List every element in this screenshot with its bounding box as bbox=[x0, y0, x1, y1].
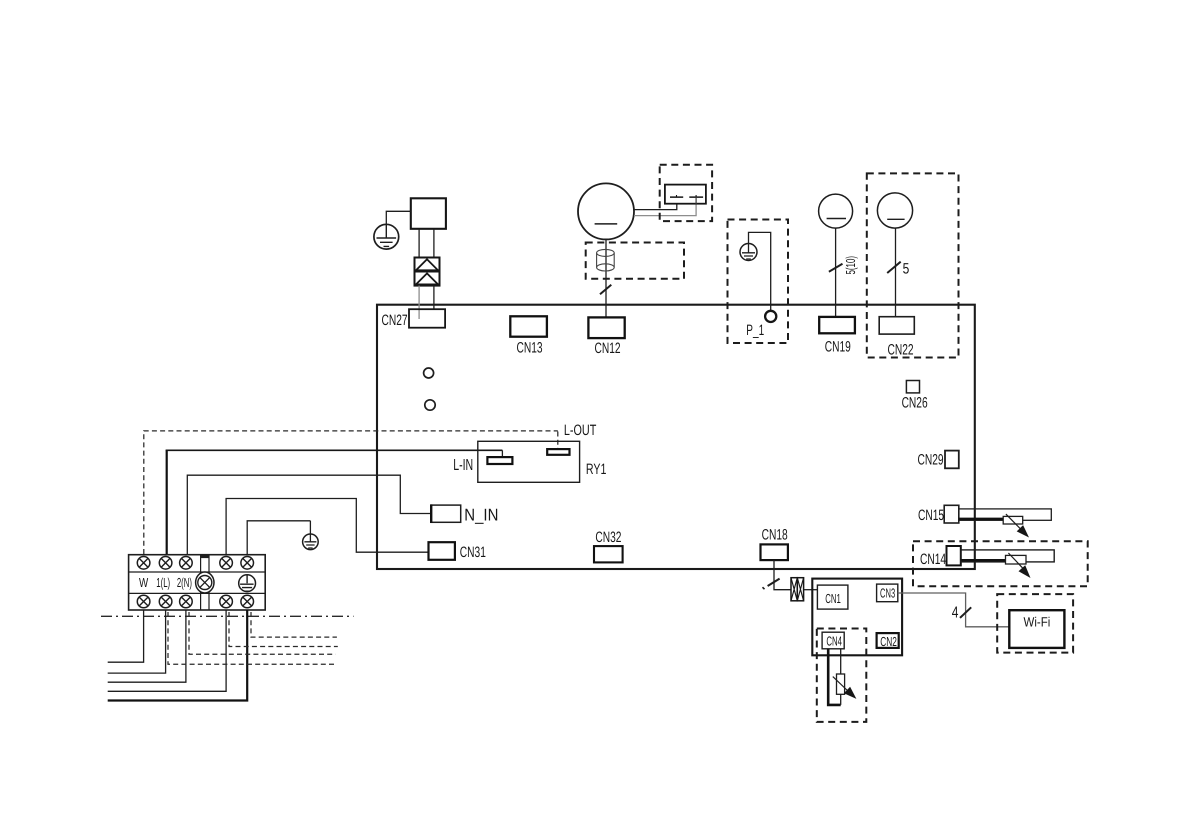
terminal block earth terminal symbol bbox=[239, 575, 256, 592]
terminal screw W top bbox=[137, 557, 150, 570]
connector CN3 bbox=[877, 584, 898, 602]
wire plug connector to CN27 (grey core) bbox=[418, 286, 420, 319]
wire 1(L) to L-IN (thick) bbox=[166, 450, 168, 554]
mounting hole B bbox=[425, 400, 435, 410]
wire W to L-OUT (dashed) bbox=[144, 431, 558, 554]
dashed enclosure around ferrite bead bbox=[586, 243, 684, 279]
wire connector pair to CN1 bbox=[804, 589, 818, 591]
wire CN18 to display board bbox=[774, 560, 791, 590]
svg-text:CN4: CN4 bbox=[826, 634, 842, 649]
svg-text:CN3: CN3 bbox=[880, 585, 895, 600]
connector CN32 bbox=[594, 546, 623, 562]
wire motor down to CN12 bbox=[605, 239, 607, 317]
sensor probe sheath at CN14 bbox=[961, 550, 1054, 562]
fan motor M3 above CN22 bbox=[877, 193, 912, 228]
wire 1(L) bottom lead bbox=[108, 610, 166, 673]
terminal screw 4 bottom bbox=[220, 595, 233, 608]
wire plug connector to CN27 bbox=[433, 286, 435, 310]
connector CN29 bbox=[945, 451, 959, 469]
terminal screw 5 top bbox=[241, 557, 254, 570]
wire CN4 right lead bbox=[840, 649, 842, 705]
earth symbol near terminal block bbox=[303, 534, 319, 550]
wire terminal 4 to CN31 bbox=[226, 499, 428, 555]
terminal screw 2(N) bottom bbox=[180, 595, 193, 608]
dashed enclosure around motor M3 / CN22 bbox=[867, 173, 959, 357]
thermistor RT1 bbox=[1003, 514, 1029, 537]
connector CN22 bbox=[879, 317, 914, 334]
wire earth to power module bbox=[386, 211, 411, 225]
svg-text:4: 4 bbox=[952, 605, 959, 622]
wire-count slash on CN22 lead bbox=[887, 262, 901, 273]
dashed lead from terminal 1(L) bbox=[168, 612, 335, 664]
wire motor to capacitor upper bbox=[634, 195, 677, 210]
wire W bottom lead bbox=[108, 610, 144, 662]
wire power module to plug connector bbox=[419, 229, 434, 258]
connector N_IN bbox=[431, 505, 461, 522]
wire motor to capacitor lower (grey) bbox=[634, 204, 696, 215]
wire motor M2 to CN19 bbox=[835, 228, 837, 317]
wire L-OUT drop to RY1 pin (dashed) bbox=[557, 432, 559, 450]
dashed lead from terminal 2(N) bbox=[189, 612, 336, 654]
svg-text:CN31: CN31 bbox=[460, 544, 486, 561]
svg-text:CN32: CN32 bbox=[595, 529, 621, 546]
svg-text:P_1: P_1 bbox=[746, 322, 764, 339]
field wiring boundary (dash-dot) bbox=[101, 615, 354, 617]
stray tick mark bbox=[763, 587, 765, 589]
wire terminal 5 to earth bbox=[247, 521, 310, 554]
dashed enclosure around Wi-Fi module bbox=[997, 594, 1073, 653]
wire terminal 5 bottom lead (thick) bbox=[108, 610, 248, 701]
terminal screw 5 bottom bbox=[241, 595, 254, 608]
svg-text:CN29: CN29 bbox=[918, 452, 944, 469]
sensor lead CN14 (thick) bbox=[961, 559, 1006, 562]
connector CN18 bbox=[761, 544, 788, 560]
protective earth symbol (top-left) bbox=[374, 224, 399, 249]
plug-socket connector pair (display lead) bbox=[791, 578, 804, 601]
wire motor M3 to CN22 bbox=[895, 228, 897, 317]
connector CN27 bbox=[409, 309, 445, 328]
terminal screw 1(L) top bbox=[159, 557, 172, 570]
connector CN12 bbox=[588, 317, 624, 338]
dashed lead from terminal 4 bbox=[229, 612, 338, 647]
connector CN26 bbox=[906, 381, 919, 393]
connector CN14 bbox=[947, 546, 961, 565]
svg-text:5(10): 5(10) bbox=[843, 256, 858, 275]
svg-text:CN22: CN22 bbox=[887, 341, 913, 358]
wire 2(N) bottom lead bbox=[108, 610, 186, 682]
svg-text:CN12: CN12 bbox=[594, 340, 620, 357]
wire jog into L-IN pin bbox=[501, 450, 503, 457]
connector CN15 bbox=[944, 505, 959, 523]
svg-text:CN19: CN19 bbox=[825, 338, 851, 355]
ferrite bead cylinder (grey) bbox=[597, 249, 615, 271]
svg-text:CN14: CN14 bbox=[920, 551, 946, 568]
mounting hole A bbox=[424, 368, 434, 378]
wire-count slash on Wi-Fi lead bbox=[960, 607, 971, 618]
relay RY1 body bbox=[478, 441, 580, 482]
main control board outline bbox=[377, 305, 975, 569]
connector CN13 bbox=[510, 316, 547, 336]
svg-text:W: W bbox=[139, 575, 149, 590]
connector CN19 bbox=[819, 317, 855, 333]
svg-text:N_IN: N_IN bbox=[464, 506, 498, 525]
connector CN4 bbox=[822, 632, 844, 649]
dashed lead from terminal 5 bbox=[251, 612, 337, 637]
dashed enclosure around CN4 thermistor bbox=[817, 629, 867, 722]
relay terminal L-OUT bbox=[547, 449, 569, 455]
wire CN4 left lead (thick) bbox=[828, 649, 841, 705]
svg-text:CN26: CN26 bbox=[902, 395, 928, 412]
wire terminal 4 bottom lead bbox=[108, 610, 226, 691]
plug-socket connector pair (top-left) bbox=[415, 258, 440, 286]
svg-text:CN15: CN15 bbox=[918, 507, 944, 524]
svg-text:CN18: CN18 bbox=[762, 527, 788, 544]
P_1 pad on board bbox=[765, 311, 776, 322]
dashed enclosure around capacitor bbox=[660, 165, 712, 221]
terminal screw W bottom bbox=[137, 595, 150, 608]
svg-text:RY1: RY1 bbox=[586, 461, 607, 478]
connector CN2 bbox=[877, 633, 899, 648]
wire 2(N) to N_IN bbox=[187, 475, 431, 554]
terminal screw 2(N) top bbox=[180, 557, 193, 570]
terminal screw 4 top bbox=[220, 557, 233, 570]
svg-text:CN27: CN27 bbox=[382, 312, 408, 329]
dashed enclosure around CN14 sensor bbox=[913, 541, 1088, 586]
relay terminal L-IN bbox=[487, 457, 512, 464]
wire earth to P_1 pad bbox=[749, 232, 771, 310]
svg-text:Wi-Fi: Wi-Fi bbox=[1024, 615, 1051, 630]
sensor lead CN15 (thick) bbox=[959, 518, 1003, 521]
svg-text:1(L): 1(L) bbox=[156, 575, 170, 590]
svg-text:CN2: CN2 bbox=[880, 634, 897, 649]
wire-count slash on CN12 lead bbox=[600, 285, 611, 295]
dashed enclosure P_1 bbox=[728, 220, 789, 344]
svg-text:5: 5 bbox=[903, 261, 910, 278]
thermistor RT2 bbox=[1006, 553, 1031, 578]
capacitor C1 box bbox=[665, 185, 706, 205]
connector CN31 bbox=[429, 542, 455, 560]
protective earth symbol in P_1 bbox=[740, 244, 757, 261]
connector CN1 bbox=[817, 585, 848, 609]
fan motor M2 above CN19 bbox=[819, 194, 853, 228]
svg-text:L-OUT: L-OUT bbox=[564, 422, 596, 439]
thermistor RT3 bbox=[833, 674, 857, 699]
svg-text:CN13: CN13 bbox=[516, 339, 542, 356]
terminal screw 1(L) bottom bbox=[159, 595, 172, 608]
fan motor M1 (top centre) bbox=[578, 183, 634, 239]
wire CN3 to Wi-Fi module bbox=[898, 593, 1010, 627]
svg-text:L-IN: L-IN bbox=[453, 457, 473, 474]
terminal block centre mounting screw bbox=[196, 572, 214, 593]
display board outline bbox=[812, 579, 902, 656]
svg-text:CN1: CN1 bbox=[825, 591, 841, 606]
wire-count slash on CN18 lead bbox=[768, 579, 780, 586]
svg-text:2(N): 2(N) bbox=[177, 575, 192, 590]
Wi-Fi module box bbox=[1009, 610, 1064, 648]
wire-count slash on CN19 lead bbox=[829, 264, 843, 272]
sensor probe sheath at CN15 bbox=[959, 509, 1052, 520]
terminal block TB1 body bbox=[129, 555, 266, 610]
power module box (top-left) bbox=[411, 198, 446, 229]
